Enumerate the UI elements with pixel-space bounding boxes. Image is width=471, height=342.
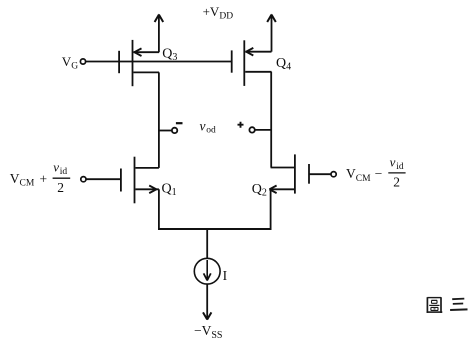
- glyph 三: [450, 299, 467, 310]
- caption 圖三 (figure three) drawn as strokes: [427, 297, 468, 313]
- svg-text:−: −: [375, 166, 383, 181]
- terminal output minus circle: [172, 128, 177, 133]
- svg-text:+VDD: +VDD: [203, 4, 234, 22]
- wire output stub right: [255, 129, 271, 131]
- wire tail to current source: [206, 229, 208, 258]
- svg-text:Q1: Q1: [162, 182, 177, 199]
- svg-text:2: 2: [393, 174, 400, 189]
- wire Q2 gate to right input: [309, 173, 331, 175]
- svg-text:VCM: VCM: [10, 171, 35, 189]
- Q4 drain line: [245, 71, 271, 73]
- label VCM - vid/2: [346, 154, 404, 189]
- svg-text:v: v: [200, 118, 206, 133]
- transistor Q4 (PMOS, mirrored pair right): [232, 40, 272, 86]
- svg-text:+: +: [40, 171, 48, 186]
- label Q1: [162, 182, 177, 199]
- label Q2: [252, 182, 267, 199]
- fraction bar left: [53, 177, 71, 179]
- wire Q1 source down: [158, 189, 160, 229]
- svg-text:Q3: Q3: [162, 46, 177, 63]
- current source I: [194, 258, 220, 284]
- svg-text:Q4: Q4: [276, 56, 291, 73]
- terminal left input circle: [81, 177, 86, 182]
- label I: [223, 268, 228, 283]
- wire Q3 source to VDD with arrow: [155, 14, 164, 53]
- terminal VG circle: [80, 59, 85, 64]
- svg-text:id: id: [396, 162, 404, 172]
- node +VDD label: [203, 4, 234, 22]
- svg-text:2: 2: [57, 180, 64, 195]
- svg-text:v: v: [390, 154, 396, 169]
- svg-text:v: v: [53, 159, 59, 174]
- wire current source to -VSS with arrow: [203, 284, 211, 320]
- wire output stub left: [159, 130, 172, 132]
- svg-text:VCM: VCM: [346, 166, 371, 184]
- transistor Q1 (NMOS): [121, 157, 159, 204]
- svg-text:Q2: Q2: [252, 182, 267, 199]
- wire VG to Q4 gate (crosses Q3): [86, 61, 232, 63]
- label VCM + vid/2: [10, 159, 68, 195]
- wire left input to Q1 gate: [86, 178, 121, 180]
- Q3 drain line: [133, 71, 159, 73]
- svg-text:VG: VG: [62, 54, 78, 72]
- glyph 圖: [427, 297, 443, 313]
- terminal right input circle: [331, 172, 336, 177]
- label Q3: [162, 46, 177, 63]
- wire tail horizontal: [158, 228, 272, 230]
- svg-text:od: od: [206, 126, 216, 136]
- svg-text:I: I: [223, 268, 228, 283]
- node -VSS label: [194, 323, 223, 341]
- transistor Q3 (PMOS): [119, 40, 159, 86]
- transistor Q2 (NMOS, mirrored): [269, 154, 309, 193]
- label plus: [238, 122, 244, 128]
- wire Q2 source down: [270, 189, 272, 229]
- terminal output plus circle: [249, 127, 254, 132]
- label minus: [176, 122, 183, 124]
- fraction bar right: [388, 172, 405, 174]
- label VG: [62, 54, 78, 72]
- label Q4: [276, 56, 291, 73]
- svg-text:−VSS: −VSS: [194, 323, 223, 341]
- wire Q4 source to VDD with arrow: [267, 14, 276, 52]
- label vod: [200, 118, 217, 135]
- svg-text:id: id: [60, 167, 68, 177]
- wire Q4 drain to Q2 drain: [270, 72, 272, 168]
- wire Q3 drain to Q1 drain: [158, 72, 160, 167]
